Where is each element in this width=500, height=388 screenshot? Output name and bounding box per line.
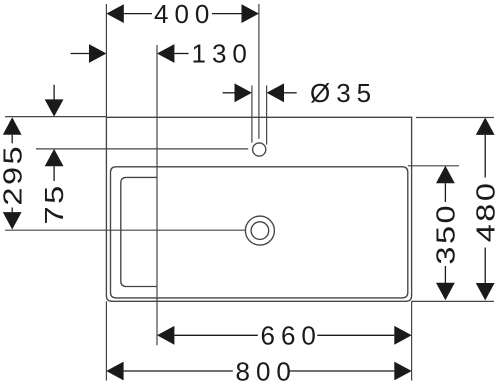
svg-text:Ø35: Ø35 — [310, 78, 377, 108]
dim tail d35 left — [223, 92, 235, 94]
extension line faucet tangent right — [266, 86, 268, 145]
extension line bowl top to right — [408, 165, 459, 167]
arrow 295 bottom — [3, 212, 22, 229]
dim tail 130 right — [174, 53, 188, 55]
dim line 75 — [53, 85, 55, 100]
arrow 350 bottom — [436, 283, 455, 300]
extension line left edge top — [105, 4, 107, 117]
arrow 295 top — [3, 117, 22, 134]
bowl inner rim — [111, 167, 408, 298]
extension line left edge bottom — [105, 301, 107, 380]
arrow 480 top — [476, 118, 495, 135]
dim tail 130 left — [71, 53, 90, 55]
dim line 400 — [124, 13, 152, 15]
svg-text:800: 800 — [236, 357, 297, 387]
dim line 295 — [11, 135, 13, 144]
extension line basin bottom to right — [412, 300, 494, 302]
faucet hole — [253, 143, 266, 156]
extension line faucet center to left (75) — [36, 148, 248, 150]
arrow 800 left — [106, 362, 123, 381]
arrow 660 left — [157, 326, 174, 345]
arrow 800 right — [394, 362, 411, 381]
shelf ledge — [121, 177, 157, 286]
basin outer rect — [106, 117, 411, 301]
arrow d35 right (outside, points left) — [267, 83, 284, 102]
arrow 480 bottom — [476, 283, 495, 300]
drain inner circle — [251, 222, 269, 240]
extension line drain center to left (295) — [5, 229, 245, 231]
svg-text:350: 350 — [432, 203, 461, 265]
svg-text:295: 295 — [0, 144, 27, 206]
arrow 130 right (outside, points left) — [157, 44, 174, 63]
extension line bowl-left x157 — [156, 45, 158, 345]
arrow 75 top (outside, points down) — [45, 99, 64, 116]
svg-text:480: 480 — [471, 181, 500, 243]
extension line basin top to left — [5, 116, 106, 118]
svg-text:75: 75 — [40, 183, 69, 224]
extension line basin top to right — [416, 117, 494, 119]
dim line 660 — [174, 334, 257, 336]
arrow 660 right — [394, 326, 411, 345]
extension line faucet tangent left — [251, 86, 253, 143]
arrow 130 left (outside, points right) — [89, 44, 106, 63]
dim tail d35 right — [284, 92, 297, 94]
svg-text:400: 400 — [154, 0, 215, 29]
dim line 800 — [124, 370, 233, 372]
arrow 400 right — [242, 4, 259, 23]
svg-text:130: 130 — [192, 39, 253, 69]
dim line 480 — [484, 135, 486, 178]
extension line right edge bottom — [411, 301, 413, 380]
arrow 75 bottom (outside, points up) — [45, 149, 64, 166]
arrow 400 left — [106, 4, 123, 23]
svg-text:660: 660 — [261, 320, 322, 350]
arrow 350 top — [436, 166, 455, 183]
dim line 350 — [444, 183, 446, 202]
drain outer circle — [245, 216, 274, 245]
arrow d35 left (outside, points right) — [235, 83, 252, 102]
center line faucet — [258, 4, 260, 139]
